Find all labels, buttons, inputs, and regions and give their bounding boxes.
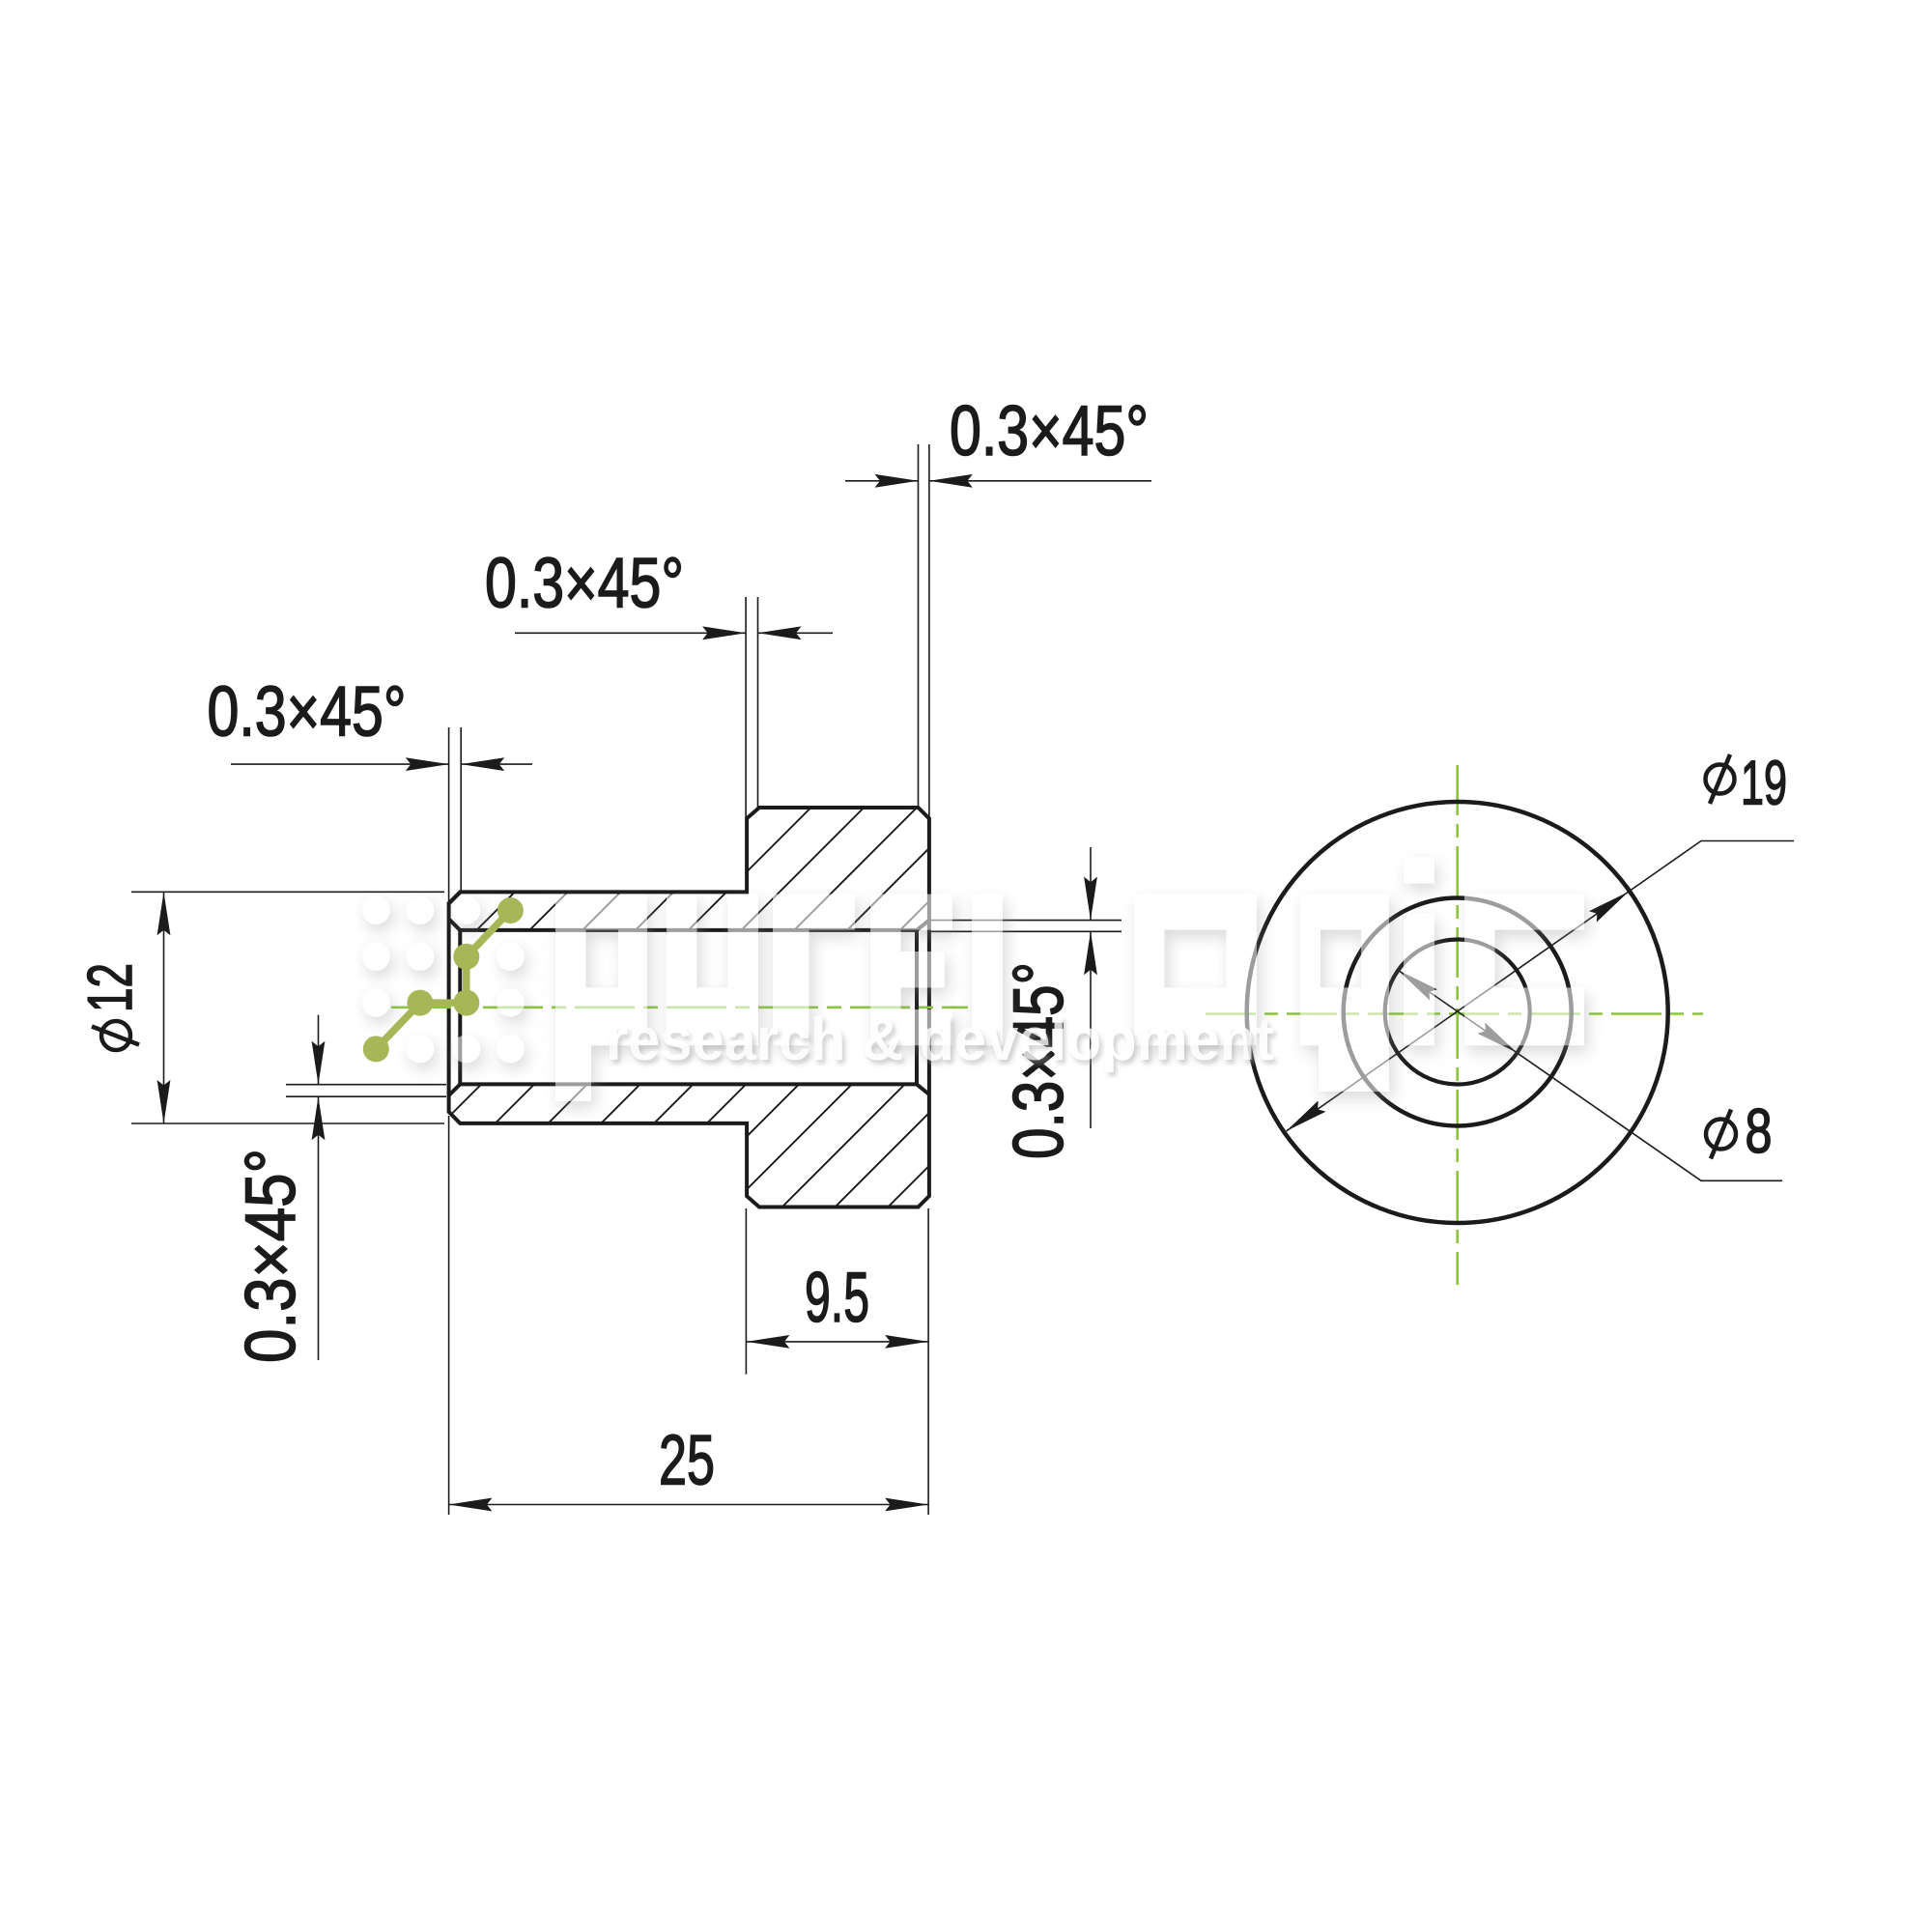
- leader dimension dia8: [1398, 970, 1782, 1180]
- svg-text:research & development: research & development: [606, 1007, 1274, 1073]
- dimension chamfer 0.3x45 rotated bottom-left (bore left chamfer): [232, 1015, 446, 1363]
- svg-text:0.3×45°: 0.3×45°: [485, 545, 684, 623]
- watermark logo dot grid: [362, 896, 390, 924]
- watermark letter i: [1404, 857, 1434, 1045]
- watermark research & development: [606, 1007, 1274, 1073]
- svg-text:8: 8: [1746, 1095, 1773, 1166]
- logo chain green: [363, 897, 524, 1062]
- svg-text:0.3×45°: 0.3×45°: [208, 673, 407, 752]
- dimension chamfer 0.3x45 middle (flange left top corner): [485, 545, 833, 819]
- watermark letter u: [667, 895, 758, 1046]
- dimension chamfer 0.3x45 rotated middle (bore right chamfer): [930, 847, 1122, 1173]
- right view circle dia19: [1247, 802, 1668, 1223]
- svg-text:19: 19: [1741, 748, 1787, 818]
- dimension 25 overall length: [448, 1116, 928, 1515]
- watermark letter g: [1300, 895, 1389, 1046]
- dimension 9.5 flange width: [746, 1208, 928, 1515]
- dimension chamfer 0.3x45 top (flange right face): [845, 392, 1151, 818]
- dimension dia12 vertical: [74, 892, 444, 1123]
- centerline section view: [391, 1007, 968, 1009]
- leader dimension dia19: [1287, 748, 1794, 1131]
- centerline right view horizontal: [1206, 1012, 1703, 1015]
- centerline right view vertical: [1456, 765, 1459, 1285]
- hatching of cut area below bore: [99, 734, 1414, 1256]
- watermark letter p: [555, 895, 647, 1101]
- svg-text:0.3×45°: 0.3×45°: [232, 1149, 310, 1363]
- svg-text:0.3×45°: 0.3×45°: [950, 392, 1149, 470]
- bore lines and chamfer edges: [449, 919, 929, 1095]
- svg-text:12: 12: [74, 963, 145, 1012]
- watermark letter c: [1464, 895, 1584, 1046]
- watermark purelogic letters and dots: [362, 857, 1584, 1101]
- hatching of cut area above bore: [99, 734, 1414, 1256]
- section view part outline: [449, 808, 929, 1207]
- watermark letter e: [870, 895, 952, 1046]
- right view circle dia12: [1344, 898, 1572, 1126]
- svg-text:9.5: 9.5: [805, 1259, 869, 1337]
- svg-text:25: 25: [659, 1422, 715, 1500]
- watermark letter l: [972, 895, 1003, 1046]
- right view circle dia8: [1385, 940, 1530, 1085]
- dimension chamfer 0.3x45 left (small cylinder left face): [208, 673, 533, 905]
- watermark letter r: [773, 895, 855, 1046]
- watermark letter o: [1134, 895, 1257, 1046]
